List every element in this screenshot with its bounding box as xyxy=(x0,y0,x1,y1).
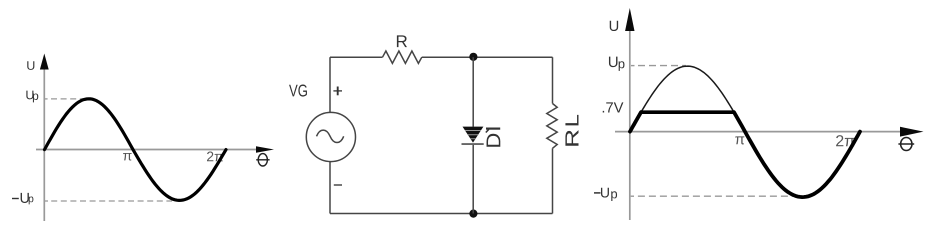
resistor R xyxy=(383,35,422,63)
wire left vertical upper xyxy=(329,57,331,112)
label Up (right) xyxy=(609,57,625,71)
wire diode branch lower xyxy=(472,145,474,214)
wire right vertical lower xyxy=(552,148,554,213)
junction dot top xyxy=(469,53,477,61)
right graph x-axis xyxy=(615,127,924,137)
wire left vertical lower xyxy=(329,162,331,214)
label -Up (left) xyxy=(12,193,33,205)
resistor RL xyxy=(547,104,557,149)
label 2pi (left) xyxy=(207,152,223,162)
right graph y-axis xyxy=(625,8,634,220)
left graph x-axis xyxy=(36,146,274,152)
label pi (left) xyxy=(123,153,132,161)
label -Up (right) xyxy=(594,188,617,201)
label theta (left) xyxy=(256,154,269,166)
label pi (right) xyxy=(735,136,744,144)
diode D1 symbol xyxy=(462,127,484,145)
wire -Up dashed level (right) xyxy=(631,195,634,197)
label 2pi (right) xyxy=(836,135,854,146)
label .7V xyxy=(603,102,624,112)
label RL (rotated) xyxy=(565,115,578,146)
label D1 (rotated) xyxy=(486,129,501,147)
wire top-left segment xyxy=(330,56,383,58)
label U (right axis) xyxy=(610,21,618,31)
wire right vertical upper xyxy=(552,57,554,103)
wire Up dashed level (right) xyxy=(631,65,635,67)
wire top-right segment xyxy=(422,56,553,58)
wire Up dashed level (left) xyxy=(44,98,48,100)
label theta (right) xyxy=(898,138,914,151)
wire input sine waveform xyxy=(45,99,227,201)
wire thick clipped rise xyxy=(630,112,641,131)
wire diode branch upper xyxy=(472,57,474,127)
wire bottom segment xyxy=(330,213,553,215)
wire clip level segment xyxy=(640,110,734,114)
left graph y-axis xyxy=(40,54,49,222)
junction dot bottom xyxy=(469,210,477,218)
wire thin original sine (positive half) xyxy=(630,66,745,132)
source VG circle xyxy=(289,85,355,185)
label Up (left) xyxy=(26,91,38,103)
label U (left axis) xyxy=(27,61,34,70)
wire -Up dashed level (left) xyxy=(44,200,49,202)
wire thick clipped fall and negative half xyxy=(734,112,860,197)
